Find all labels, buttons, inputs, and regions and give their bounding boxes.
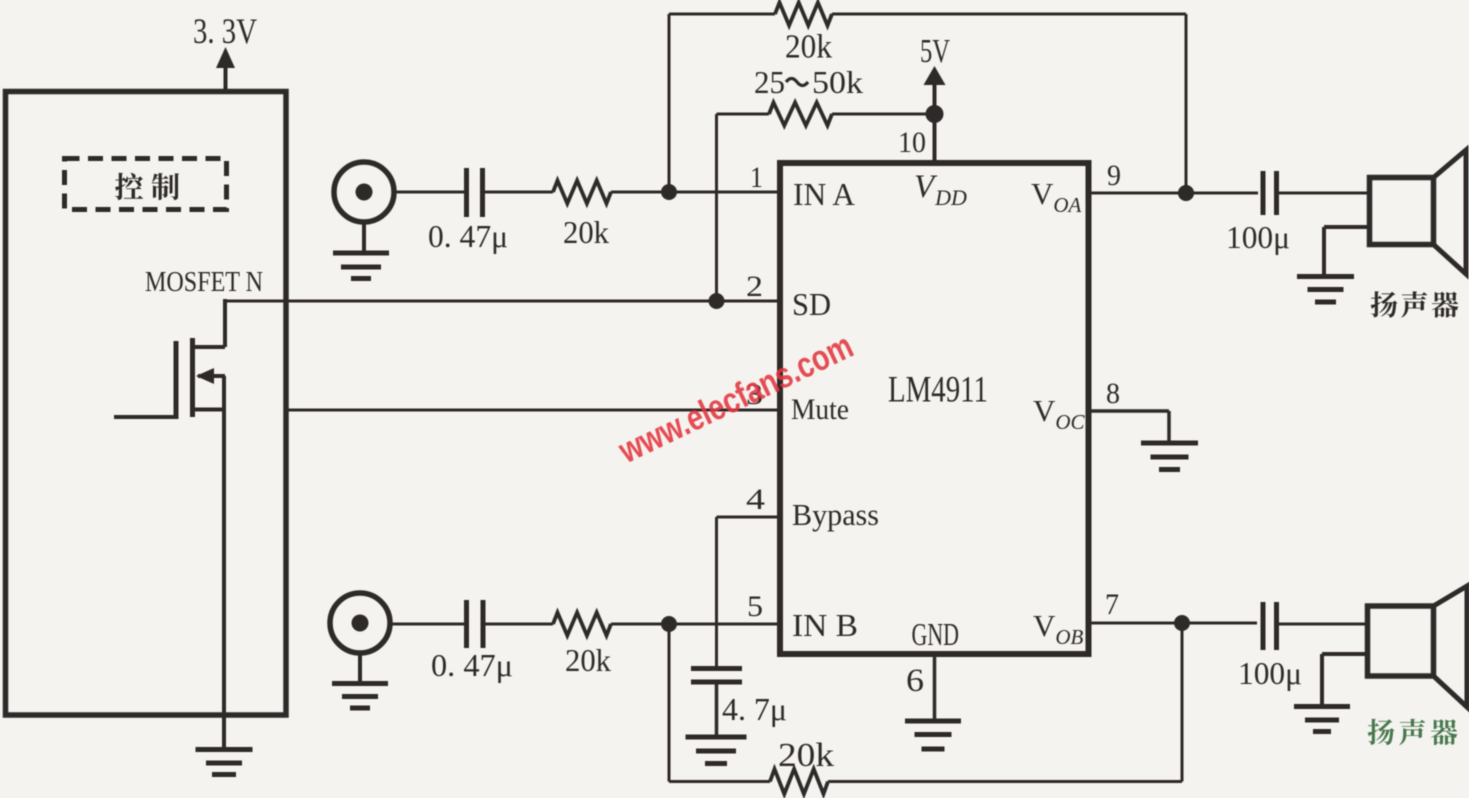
svg-text:MOSFET N: MOSFET N: [145, 267, 263, 298]
svg-text:8: 8: [1106, 377, 1120, 410]
svg-text:0. 47μ: 0. 47μ: [431, 647, 513, 683]
svg-text:20k: 20k: [785, 29, 832, 66]
svg-text:6: 6: [906, 663, 924, 699]
svg-text:7: 7: [1105, 588, 1119, 621]
svg-text:9: 9: [1107, 159, 1121, 192]
svg-text:Bypass: Bypass: [792, 497, 879, 532]
svg-text:25: 25: [754, 64, 785, 100]
svg-text:20k: 20k: [565, 642, 611, 678]
svg-text:Mute: Mute: [791, 393, 849, 426]
svg-text:LM4911: LM4911: [888, 370, 988, 411]
svg-text:0. 47μ: 0. 47μ: [428, 218, 508, 254]
svg-text:5: 5: [747, 590, 763, 623]
svg-text:10: 10: [898, 126, 926, 159]
svg-text:IN A: IN A: [793, 176, 855, 212]
svg-text:4. 7μ: 4. 7μ: [722, 691, 787, 727]
svg-text:20k: 20k: [778, 737, 834, 774]
svg-text:4: 4: [746, 483, 765, 516]
svg-text:50k: 50k: [812, 64, 863, 100]
svg-text:GND: GND: [912, 616, 960, 652]
svg-text:100μ: 100μ: [1226, 219, 1290, 255]
svg-text:5V: 5V: [920, 33, 950, 70]
svg-text:20k: 20k: [563, 214, 609, 250]
svg-text:2: 2: [746, 270, 763, 303]
svg-text:3. 3V: 3. 3V: [193, 11, 257, 51]
svg-text:SD: SD: [792, 286, 831, 322]
svg-text:IN B: IN B: [792, 607, 858, 643]
svg-text:100μ: 100μ: [1238, 655, 1302, 691]
svg-text:1: 1: [750, 161, 763, 194]
